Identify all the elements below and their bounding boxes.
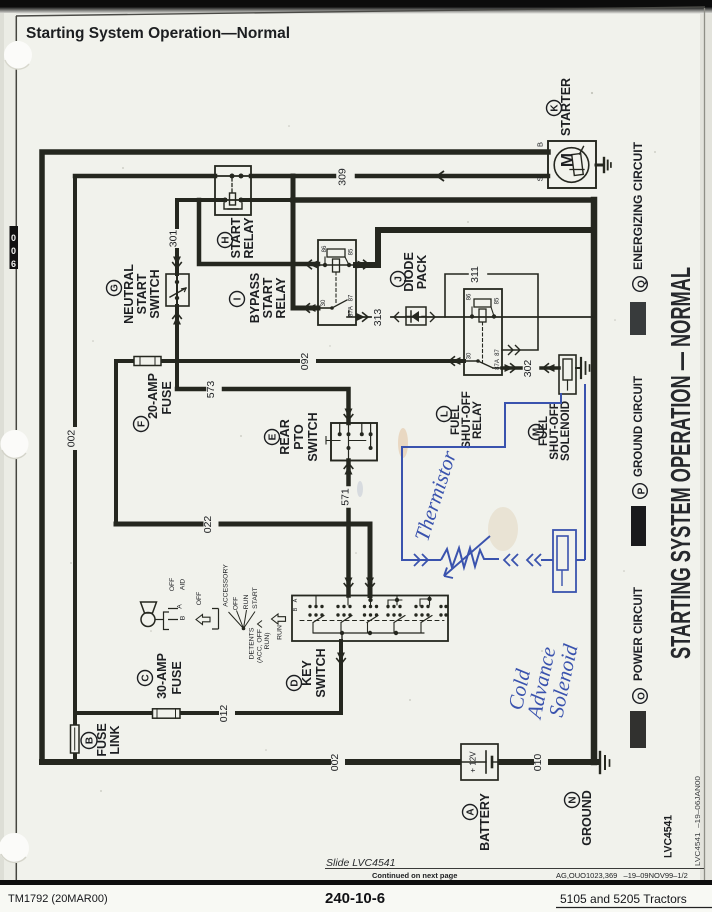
svg-text:DETENTS: DETENTS xyxy=(249,627,256,659)
svg-text:Slide LVC4541: Slide LVC4541 xyxy=(326,857,395,869)
svg-text:87A: 87A xyxy=(349,306,355,317)
svg-text:M: M xyxy=(558,153,577,167)
svg-text:Continued on next page: Continued on next page xyxy=(372,871,457,880)
svg-text:K: K xyxy=(550,104,561,112)
svg-text:J: J xyxy=(394,276,405,282)
svg-text:E: E xyxy=(268,433,279,440)
svg-text:6: 6 xyxy=(11,259,16,269)
svg-text:LINK: LINK xyxy=(108,725,122,754)
svg-text:B: B xyxy=(85,737,96,744)
svg-text:010: 010 xyxy=(532,754,544,772)
svg-text:P: P xyxy=(637,487,648,494)
svg-text:85: 85 xyxy=(495,297,501,304)
svg-text:301: 301 xyxy=(168,230,180,248)
svg-text:OFF: OFF xyxy=(169,578,176,592)
svg-text:O: O xyxy=(637,692,648,700)
svg-text:309: 309 xyxy=(337,168,349,186)
svg-text:GROUND CIRCUIT: GROUND CIRCUIT xyxy=(631,375,645,477)
svg-text:OFF: OFF xyxy=(196,592,203,606)
svg-text:FUSE: FUSE xyxy=(160,381,174,414)
svg-text:0: 0 xyxy=(11,233,16,243)
svg-text:A: A xyxy=(466,808,477,815)
svg-text:302: 302 xyxy=(522,360,534,378)
svg-text:AID: AID xyxy=(180,579,187,590)
svg-text:PACK: PACK xyxy=(415,255,429,290)
svg-text:240-10-6: 240-10-6 xyxy=(325,890,385,907)
svg-text:FUSE: FUSE xyxy=(170,661,184,694)
svg-text:LVC4541 –19–06JAN00: LVC4541 –19–06JAN00 xyxy=(693,776,702,866)
svg-text:30: 30 xyxy=(321,299,327,306)
svg-text:LVC4541: LVC4541 xyxy=(663,815,675,858)
svg-text:SWITCH: SWITCH xyxy=(306,412,320,461)
svg-text:POWER CIRCUIT: POWER CIRCUIT xyxy=(631,586,645,681)
svg-text:START: START xyxy=(261,277,275,318)
svg-text:START: START xyxy=(252,587,259,609)
svg-text:I: I xyxy=(233,297,244,300)
svg-text:(ACC, OFF: (ACC, OFF xyxy=(257,629,264,663)
svg-text:NEUTRAL: NEUTRAL xyxy=(122,264,136,324)
svg-text:SWITCH: SWITCH xyxy=(148,269,162,318)
svg-text:RELAY: RELAY xyxy=(242,217,256,259)
svg-text:+ 12V: + 12V xyxy=(469,751,478,773)
svg-text:AG,OUO1023,369 –19–09NOV99–1: AG,OUO1023,369 –19–09NOV99–1/2 xyxy=(556,871,688,880)
svg-text:30-AMP: 30-AMP xyxy=(155,653,169,699)
svg-text:002: 002 xyxy=(66,430,78,448)
svg-text:573: 573 xyxy=(205,381,217,399)
svg-text:87: 87 xyxy=(349,294,355,301)
svg-text:ACCESSORY: ACCESSORY xyxy=(223,564,230,607)
svg-text:RELAY: RELAY xyxy=(274,277,288,319)
svg-text:S: S xyxy=(536,176,545,181)
svg-text:Q: Q xyxy=(637,280,648,288)
svg-text:PTO: PTO xyxy=(292,424,306,450)
svg-text:DIODE: DIODE xyxy=(402,252,416,292)
svg-text:TM1792 (20MAR00): TM1792 (20MAR00) xyxy=(8,893,108,905)
svg-text:313: 313 xyxy=(372,309,384,327)
svg-text:87: 87 xyxy=(495,349,501,356)
svg-text:0: 0 xyxy=(11,246,16,256)
svg-text:20-AMP: 20-AMP xyxy=(146,373,160,419)
svg-text:GROUND: GROUND xyxy=(580,790,594,846)
svg-text:A: A xyxy=(293,598,299,602)
svg-text:OFF: OFF xyxy=(233,597,240,611)
svg-text:5105 and 5205 Tractors: 5105 and 5205 Tractors xyxy=(560,892,687,906)
svg-text:RELAY: RELAY xyxy=(472,401,484,439)
svg-text:START: START xyxy=(135,273,149,314)
svg-text:B: B xyxy=(180,615,187,620)
svg-text:F: F xyxy=(137,421,148,427)
svg-text:B: B xyxy=(293,607,299,611)
svg-text:C: C xyxy=(141,674,152,681)
svg-text:012: 012 xyxy=(218,705,230,723)
svg-text:86: 86 xyxy=(467,293,473,300)
svg-text:G: G xyxy=(110,284,121,292)
svg-text:86: 86 xyxy=(322,245,328,252)
svg-text:RUN: RUN xyxy=(243,595,250,610)
svg-text:022: 022 xyxy=(202,516,214,534)
svg-text:M: M xyxy=(532,428,543,436)
svg-text:85: 85 xyxy=(349,248,355,255)
svg-text:092: 092 xyxy=(299,353,311,371)
svg-text:571: 571 xyxy=(340,488,352,506)
svg-text:H: H xyxy=(221,236,232,243)
svg-text:A: A xyxy=(177,604,184,609)
svg-text:B: B xyxy=(536,142,545,147)
svg-text:RUN: RUN xyxy=(277,625,284,640)
svg-text:87A: 87A xyxy=(495,359,501,370)
svg-text:311: 311 xyxy=(469,266,481,283)
svg-text:BYPASS: BYPASS xyxy=(248,273,262,323)
svg-text:RUN): RUN) xyxy=(264,633,271,650)
svg-text:STARTING SYSTEM OPERATION — NO: STARTING SYSTEM OPERATION — NORMAL xyxy=(665,267,696,659)
svg-text:N: N xyxy=(568,796,579,803)
svg-text:Starting System Operation—Norm: Starting System Operation—Normal xyxy=(26,25,290,42)
svg-text:L: L xyxy=(440,411,451,417)
svg-text:SOLENOID: SOLENOID xyxy=(560,401,572,461)
svg-text:002: 002 xyxy=(329,754,341,772)
svg-text:D: D xyxy=(290,679,301,686)
svg-text:SWITCH: SWITCH xyxy=(314,648,328,697)
svg-text:30: 30 xyxy=(467,352,473,359)
svg-text:ENERGIZING CIRCUIT: ENERGIZING CIRCUIT xyxy=(631,141,645,270)
svg-text:BATTERY: BATTERY xyxy=(478,793,492,851)
